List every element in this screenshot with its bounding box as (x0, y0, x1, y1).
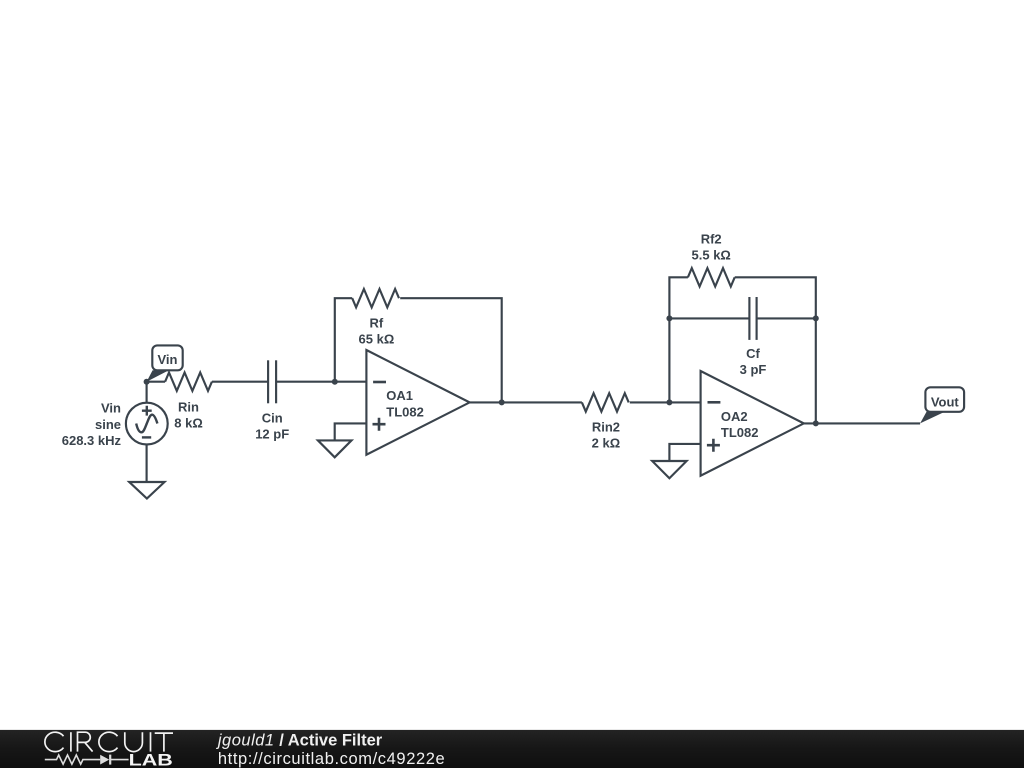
svg-text:Rf: Rf (370, 316, 384, 331)
wire: feedback tap up from node A (335, 298, 352, 382)
svg-text:LAB: LAB (129, 751, 173, 768)
footer bar (0, 730, 1024, 768)
capacitor Cin (268, 360, 276, 403)
op-amp OA1 (366, 350, 469, 455)
svg-text:Rin2: Rin2 (592, 420, 620, 435)
svg-text:http://circuitlab.com/c49222e: http://circuitlab.com/c49222e (218, 750, 445, 768)
logo resistor-diode squiggle (45, 755, 129, 765)
svg-text:628.3 kHz: 628.3 kHz (62, 433, 122, 448)
resistor Rin (165, 373, 212, 391)
flag Vin pointer wedge (147, 370, 169, 382)
flag Vin box (152, 345, 182, 370)
svg-text:Vin: Vin (158, 352, 178, 367)
wire: OA1 output to Rin2 (470, 401, 582, 403)
node C junction dot (OA1 output) (499, 399, 505, 405)
svg-text:12 pF: 12 pF (255, 427, 289, 442)
svg-text:Cf: Cf (746, 346, 760, 361)
wire: OA1 non-inverting input to ground (335, 423, 367, 440)
svg-text:Vin: Vin (101, 401, 121, 416)
svg-text:OA2: OA2 (721, 409, 748, 424)
svg-text:Vout: Vout (931, 394, 960, 409)
wire: Rin2 to OA2 inverting input (630, 401, 701, 403)
svg-text:TL082: TL082 (721, 425, 759, 440)
wire: Rf2 to OA2 output node (735, 277, 816, 423)
ground at OA1 non-inverting input (318, 440, 352, 457)
svg-text:3 pF: 3 pF (740, 362, 767, 377)
wire: Cf branch left (669, 317, 749, 319)
flag Vout pointer wedge (920, 412, 944, 424)
svg-text:2 kΩ: 2 kΩ (592, 435, 621, 450)
logo CIRCUIT wordmark (45, 732, 173, 751)
wire: Cin to OA1 inverting input (276, 381, 366, 383)
node G junction dot (OA2 output) (813, 420, 819, 426)
wire: Vin node to Rin (147, 381, 166, 383)
svg-text:Rin: Rin (178, 400, 199, 415)
node F junction dot (Cf right) (813, 315, 819, 321)
svg-text:sine: sine (95, 417, 121, 432)
wire: OA2 output to Vout (804, 422, 920, 424)
svg-text:Rf2: Rf2 (701, 231, 722, 246)
svg-text:jgould1 / Active Filter: jgould1 / Active Filter (216, 732, 383, 750)
svg-text:TL082: TL082 (386, 405, 424, 420)
node B junction dot (Cin/Rf) (332, 379, 338, 385)
svg-text:8 kΩ: 8 kΩ (174, 416, 203, 431)
svg-text:5.5 kΩ: 5.5 kΩ (692, 247, 731, 262)
op-amp OA2 (701, 371, 804, 476)
capacitor Cf (749, 297, 756, 340)
ground at OA2 non-inverting input (652, 461, 686, 478)
node E junction dot (Cf left) (666, 315, 672, 321)
logo diode triangle (100, 755, 109, 765)
resistor Rf (352, 289, 399, 307)
wire: feedback 2 left vertical (669, 277, 688, 402)
resistor Rin2 (582, 393, 629, 411)
svg-text:65 kΩ: 65 kΩ (359, 331, 395, 346)
node A junction dot (144, 379, 150, 385)
ground below source (129, 482, 164, 499)
voltage source V1 Vin (126, 382, 168, 482)
svg-text:Cin: Cin (262, 410, 283, 425)
wire: Cf branch right (757, 317, 816, 319)
svg-text:OA1: OA1 (386, 388, 413, 403)
wire: Rin to Cin (212, 381, 268, 383)
node D junction dot (Rin2/feedback2) (666, 399, 672, 405)
flag Vout box (925, 387, 964, 412)
wire: OA2 non-inverting input to ground (669, 444, 700, 461)
wire: Rf to OA1 output (400, 298, 502, 402)
resistor Rf2 (688, 268, 735, 286)
